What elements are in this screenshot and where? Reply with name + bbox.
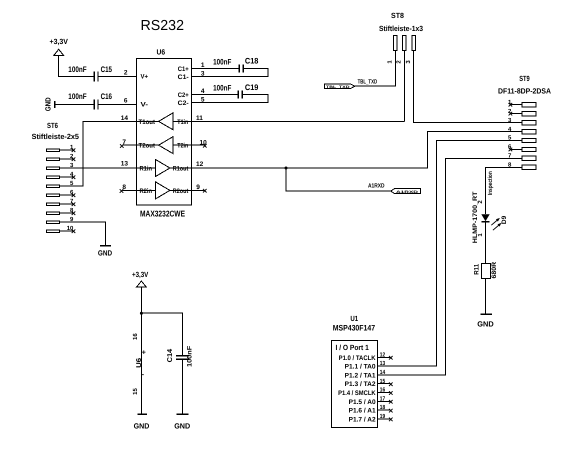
svg-text:V+: V+ <box>141 74 149 81</box>
wire ST8 pin3 to ST9 pin3 <box>414 50 522 122</box>
svg-text:DF11-8DP-2DSA: DF11-8DP-2DSA <box>498 87 552 96</box>
svg-text:A1RXD: A1RXD <box>396 190 419 194</box>
svg-text:R2out: R2out <box>173 188 189 195</box>
supply +3,3V (top) <box>50 37 68 55</box>
svg-text:TBL_TXD: TBL_TXD <box>358 79 378 86</box>
svg-text:U1: U1 <box>350 314 358 323</box>
wire junction to A1RXD flag <box>286 168 391 191</box>
wire ST6 pin5 to U6 T1out <box>59 121 136 186</box>
svg-text:ST9: ST9 <box>519 74 530 83</box>
wire C19 loop right and pin5 return <box>192 95 268 103</box>
svg-text:T1in: T1in <box>177 119 188 126</box>
svg-text:100nF: 100nF <box>213 57 231 66</box>
microcontroller U1 MSP430F147 <box>332 314 378 427</box>
svg-text:P1.5 / A0: P1.5 / A0 <box>349 399 376 406</box>
svg-text:P1.4 / SMCLK: P1.4 / SMCLK <box>338 390 376 397</box>
pin numbers ST8 (rotated) <box>387 60 412 64</box>
buffer T2 (inside U6) <box>137 137 192 154</box>
svg-text:C19: C19 <box>245 83 259 92</box>
svg-text:D9: D9 <box>501 215 508 224</box>
svg-text:100nF: 100nF <box>68 92 86 101</box>
svg-text:T1out: T1out <box>139 119 156 126</box>
svg-text:2: 2 <box>124 69 128 76</box>
svg-text:TBL_TXD: TBL_TXD <box>326 85 350 89</box>
capacitor C16 100nF <box>68 92 112 110</box>
svg-text:I / O Port 1: I / O Port 1 <box>336 343 369 352</box>
svg-text:C18: C18 <box>245 57 259 66</box>
svg-text:C1+: C1+ <box>178 66 189 73</box>
wire ST9 pin5 to MSP430 P1.1 <box>378 141 522 366</box>
net label A1RXD <box>368 182 421 194</box>
wire GND to C16 <box>55 103 94 105</box>
svg-text:14: 14 <box>380 369 386 376</box>
ground (left of C16) <box>43 97 54 111</box>
svg-text:P1.7 / A2: P1.7 / A2 <box>349 416 376 423</box>
svg-text:100nF: 100nF <box>213 84 231 93</box>
svg-text:13: 13 <box>121 161 129 168</box>
LED D9 HLMP-1700_RT <box>472 191 508 243</box>
node junction power rail <box>140 312 143 315</box>
ground (under ST6 pin9) <box>98 246 113 258</box>
svg-text:C15: C15 <box>101 65 113 74</box>
svg-text:A1RXD: A1RXD <box>368 182 385 189</box>
svg-text:15: 15 <box>132 388 139 395</box>
pin numbers U1 <box>380 351 386 420</box>
ground (under C14) <box>174 414 191 430</box>
svg-text:Inspection: Inspection <box>487 171 494 195</box>
svg-text:MSP430F147: MSP430F147 <box>333 323 376 332</box>
wire +3,3V down to U6 power pin 16 <box>140 287 142 414</box>
svg-text:+: + <box>142 350 146 357</box>
resistor R11 680R <box>474 262 498 279</box>
svg-text:Stiftleiste-2x5: Stiftleiste-2x5 <box>32 132 79 141</box>
ground (under R11) <box>477 314 494 328</box>
buffer R2 (inside U6) <box>137 182 192 199</box>
svg-text:Stiftleiste-1x3: Stiftleiste-1x3 <box>379 24 423 33</box>
svg-text:U6: U6 <box>157 48 166 57</box>
svg-text:P1.2 / TA1: P1.2 / TA1 <box>345 372 376 379</box>
svg-text:P1.6 / A1: P1.6 / A1 <box>349 408 376 415</box>
node junction R1out/A1RXD <box>285 167 288 170</box>
wire U6 pin1 loop top <box>192 68 239 70</box>
wire ST8 pin1 to TBL_TXD flag <box>355 50 396 86</box>
pin 8 stub R2in (unconnected) <box>120 189 137 193</box>
pin numbers U6 right <box>196 62 207 191</box>
svg-text:U6: U6 <box>136 358 143 368</box>
U1 unconnected pin stubs <box>378 356 393 421</box>
pin numbers ST9 <box>508 99 512 169</box>
svg-text:GND: GND <box>174 422 191 431</box>
svg-text:1: 1 <box>201 62 205 69</box>
buffer R1 (inside U6) <box>137 160 192 177</box>
wire C18 loop right and pin3 return <box>192 69 268 77</box>
svg-text:R11: R11 <box>474 263 481 274</box>
svg-text:6: 6 <box>124 97 128 104</box>
wire ST6 pin9 to ground <box>59 222 105 246</box>
svg-text:P1.1 / TA0: P1.1 / TA0 <box>345 364 376 371</box>
wire U6 T1in to ST8 pin2 <box>192 120 405 122</box>
wire junction to C14 <box>141 313 182 355</box>
wire +3,3V to C15 <box>59 55 94 76</box>
svg-text:C2+: C2+ <box>178 92 189 99</box>
capacitor C19 100nF <box>213 83 259 99</box>
op-amp U6 MAX3232CWE <box>137 48 192 219</box>
wire U6 pin4 loop top <box>192 94 238 96</box>
ground (under U6 power) <box>134 414 150 430</box>
wire LED to R11 <box>484 222 486 264</box>
svg-text:RS232: RS232 <box>141 18 185 34</box>
wire C15 to U6 pin 2 <box>99 75 137 77</box>
capacitor C15 100nF <box>68 65 112 82</box>
wire ST8 pin2 down to T1in net <box>403 50 405 121</box>
wire R11 to ground <box>484 279 486 315</box>
svg-text:12: 12 <box>196 161 204 168</box>
wire ST9 pin7 to MSP430 P1.2 <box>378 158 522 375</box>
svg-text:R2in: R2in <box>140 188 153 195</box>
connector ST6 Stiftleiste-2x5 <box>32 121 79 233</box>
pin 10 stub T2in (unconnected) <box>192 144 207 148</box>
pin 9 stub R2out (unconnected) <box>192 189 207 193</box>
svg-text:GND: GND <box>134 422 150 431</box>
svg-text:100nF: 100nF <box>68 65 86 74</box>
svg-text:+3,3V: +3,3V <box>132 270 148 279</box>
svg-text:680R: 680R <box>491 262 498 279</box>
svg-text:GND: GND <box>477 320 494 329</box>
svg-text:ST6: ST6 <box>47 121 58 130</box>
svg-text:R1in: R1in <box>140 165 153 172</box>
pin 7 stub T2out (unconnected) <box>120 144 137 148</box>
svg-text:T2out: T2out <box>139 142 156 149</box>
svg-text:C2-: C2- <box>178 100 189 107</box>
wire ST6 pin3 to U6 R1in <box>59 167 136 169</box>
svg-text:100nF: 100nF <box>187 346 194 367</box>
ST6 unconnected pin stubs <box>59 148 75 233</box>
ST9 unconnected pin stubs <box>509 103 522 151</box>
pin numbers ST6 <box>67 144 74 232</box>
svg-text:GND: GND <box>98 248 113 257</box>
svg-text:R1out: R1out <box>173 165 189 172</box>
svg-text:ST8: ST8 <box>391 11 404 20</box>
wire U6 R1out to ST9 pin4 <box>192 132 523 168</box>
svg-text:P1.3 / TA2: P1.3 / TA2 <box>345 381 376 388</box>
svg-text:C14: C14 <box>167 349 174 363</box>
svg-text:GND: GND <box>43 97 52 111</box>
svg-text:16: 16 <box>132 333 139 340</box>
pin numbers U6 left <box>121 69 129 191</box>
svg-text:+3,3V: +3,3V <box>50 37 68 46</box>
wire C14 to ground <box>182 359 184 414</box>
net label TBL_TXD <box>325 79 378 89</box>
svg-text:C16: C16 <box>101 92 113 101</box>
wire ST9 pin8 to LED D9 <box>485 167 522 214</box>
svg-text:V-: V- <box>141 102 149 109</box>
buffer T1 (inside U6) <box>137 113 192 130</box>
svg-text:C1-: C1- <box>178 74 189 81</box>
capacitor C18 100nF <box>213 57 259 73</box>
svg-text:13: 13 <box>380 360 386 367</box>
connector ST8 Stiftleiste-1x3 <box>379 11 423 51</box>
supply +3,3V (bottom) <box>132 270 148 287</box>
power pins U6 (16/15) <box>132 333 146 395</box>
svg-text:T2in: T2in <box>177 142 188 149</box>
svg-text:4: 4 <box>201 88 205 95</box>
svg-text:MAX3232CWE: MAX3232CWE <box>140 209 185 219</box>
svg-text:P1.0 / TACLK: P1.0 / TACLK <box>339 355 376 362</box>
connector ST9 DF11-8DP-2DSA <box>498 74 552 170</box>
capacitor C14 100nF <box>167 346 194 367</box>
wire C16 to U6 pin 6 <box>99 103 137 105</box>
